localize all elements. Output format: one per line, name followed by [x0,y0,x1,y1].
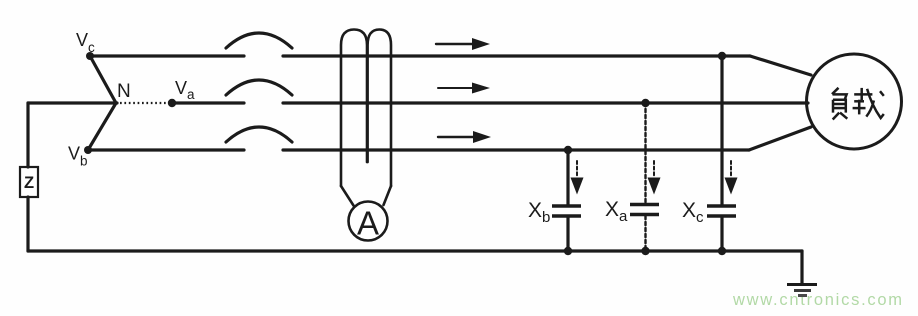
wire: bottom ground bus [28,249,802,252]
wire: Xb lower lead [566,218,569,252]
wire: Xb upper lead [566,150,569,205]
wire: phase C diagonal to load [750,56,811,75]
wire: neutral vertical rail upper [26,103,29,167]
svg-text:a: a [619,208,628,225]
node: Xb on ground bus [564,247,572,255]
wire: source branch N to Vc [90,56,116,103]
current arrow into Xa (dashed) [653,161,655,177]
load label 负载 (drawn strokes) [832,88,884,120]
wire: phase B bottom line left segment [88,148,244,151]
capacitor Xc branch [682,52,738,255]
load circle [807,54,902,149]
svg-text:b: b [80,154,88,169]
wire: phase C top line right segment [283,54,750,57]
wire: phase A middle line right segment to load [283,101,808,104]
svg-text:V: V [76,30,88,50]
node: Xc on ground bus [718,247,726,255]
node Vc terminal dot [86,52,94,60]
wire: source branch N to Vb [88,103,116,150]
node: Xc tap on phase C [718,52,726,60]
wire: phase C top line left segment [90,54,244,57]
wire: Xc upper lead [720,56,723,205]
node Va dot [168,99,176,107]
node: Xa on ground bus [641,247,649,255]
impedance Z [20,167,38,197]
svg-text:www.cntronics.com: www.cntronics.com [732,291,904,309]
svg-text:X: X [605,198,619,221]
svg-text:b: b [542,209,550,226]
wire: phase B diagonal to load [749,127,811,150]
wire: neutral vertical rail lower [26,197,29,251]
capacitor Xa branch [605,99,661,255]
ground symbol [787,285,817,296]
label Va [175,78,195,102]
ammeter A [349,202,388,241]
node Vb terminal dot [84,146,92,154]
current arrow into Xb (dashed) [576,161,578,177]
label Vc [76,30,95,55]
wire: dotted neutral segment N to Va [120,102,168,104]
svg-text:X: X [528,199,542,222]
capacitor Xa plates [630,203,659,207]
current arrow phase A [438,83,490,94]
svg-text:N: N [117,81,131,102]
current arrow phase C [436,38,490,50]
svg-text:X: X [682,199,696,222]
wire: phase B bottom line right segment [283,148,749,151]
breaker on phase C [226,33,292,48]
wire: Xa upper lead [644,103,646,203]
capacitor Xb branch [528,146,584,255]
wire: phase A middle line center segment [172,101,244,104]
current arrow phase B [438,131,491,143]
svg-text:a: a [187,87,195,102]
breaker on phase B [226,127,292,142]
wire: CT funnel left lead [341,186,354,206]
svg-text:A: A [357,205,379,242]
breaker on phase A [226,80,292,95]
current arrow into Xc (dashed) [730,161,732,177]
svg-text:Z: Z [24,174,34,192]
node: Xb tap on phase B [564,146,572,154]
svg-text:c: c [696,209,704,226]
wire: CT funnel right lead [384,186,392,205]
capacitor Xb plates [552,204,581,208]
current transformer CT right loop [368,30,391,187]
capacitor Xc plates [707,204,736,208]
wire: Xa lower lead [644,216,646,251]
wire: ground drop [800,251,803,284]
wire: Xc lower lead [720,218,723,252]
node: Xa tap on phase A [641,99,649,107]
svg-text:V: V [175,78,187,98]
svg-text:V: V [68,144,80,164]
label Vb [68,144,88,169]
svg-text:c: c [88,40,95,55]
current transformer CT left loop [341,30,367,187]
wire: phase A middle line left segment (to node N) [28,101,117,104]
